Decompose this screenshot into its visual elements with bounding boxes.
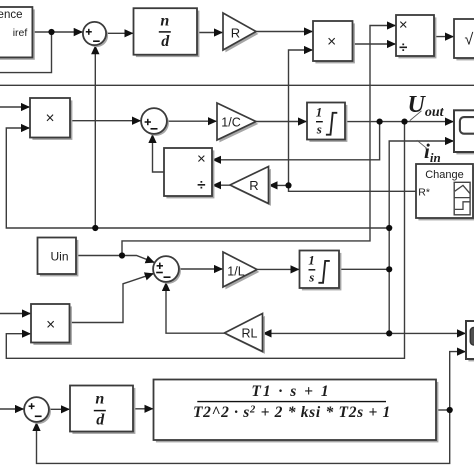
svg-text:√: √: [465, 32, 474, 49]
svg-text:1/C: 1/C: [221, 115, 240, 129]
svg-text:×: ×: [197, 151, 206, 168]
svg-text:RL: RL: [242, 327, 258, 341]
svg-text:Uin: Uin: [50, 249, 68, 263]
svg-text:T1 · s + 1: T1 · s + 1: [251, 383, 330, 400]
svg-text:iref: iref: [13, 27, 28, 39]
svg-text:1: 1: [308, 252, 315, 267]
svg-text:×: ×: [399, 16, 408, 33]
svg-text:d: d: [96, 411, 105, 428]
svg-text:×: ×: [45, 110, 54, 127]
svg-text:Reference: Reference: [0, 9, 23, 21]
svg-text:n: n: [160, 13, 169, 30]
svg-text:s: s: [308, 269, 314, 284]
svg-text:d: d: [161, 33, 170, 50]
svg-text:T2^2 · s2 + 2 * ksi * T2s + 1: T2^2 · s2 + 2 * ksi * T2s + 1: [193, 404, 391, 421]
svg-text:×: ×: [46, 316, 55, 333]
svg-text:R: R: [249, 178, 258, 193]
svg-text:×: ×: [327, 34, 336, 51]
svg-text:R: R: [231, 26, 240, 41]
svg-text:÷: ÷: [197, 176, 205, 193]
svg-text:÷: ÷: [399, 39, 407, 56]
svg-text:Change: Change: [425, 169, 464, 181]
svg-text:s: s: [316, 121, 322, 136]
svg-text:1: 1: [316, 104, 323, 119]
svg-text:n: n: [95, 390, 104, 407]
svg-text:R*: R*: [418, 186, 430, 198]
svg-text:1/L: 1/L: [227, 265, 244, 279]
